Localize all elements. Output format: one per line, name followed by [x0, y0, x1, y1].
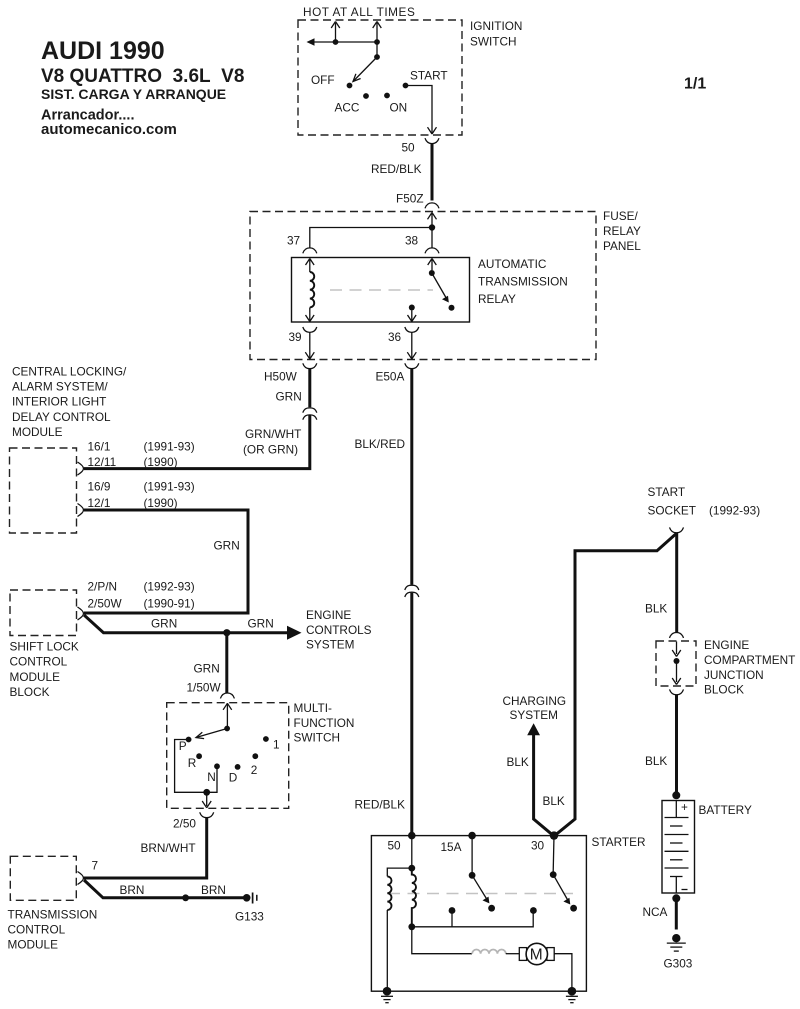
svg-text:1: 1	[273, 738, 280, 752]
svg-text:2/50: 2/50	[173, 817, 196, 831]
terminal label 37	[287, 234, 300, 248]
wire 36 to panel edge	[407, 332, 416, 359]
switch wiper arm toward P	[196, 729, 227, 739]
junction block internal dot	[674, 658, 680, 664]
bus contact stub left	[449, 907, 456, 927]
svg-text:SYSTEM: SYSTEM	[306, 638, 355, 652]
terminal label 36	[388, 330, 402, 344]
wire label BLK	[543, 794, 565, 808]
relay internal dashed link	[330, 289, 433, 291]
wire feed arrow up right	[373, 22, 382, 43]
wire RED/BLK to starter 50	[410, 593, 413, 836]
battery label	[699, 803, 752, 817]
solenoid pull-in coil branch	[387, 868, 412, 876]
wire label GRN/WHT (OR GRN)	[243, 427, 301, 457]
wire label GRN	[194, 662, 220, 676]
junction dot	[333, 39, 339, 45]
relay switch pivot dot	[429, 270, 435, 276]
inline connector on GRN wire	[303, 408, 317, 420]
relay contact dot	[449, 305, 455, 311]
page number 1/1	[684, 76, 706, 93]
svg-text:automecanico.com: automecanico.com	[41, 121, 177, 138]
svg-text:2/P/N: 2/P/N	[88, 580, 118, 594]
svg-text:IGNITION: IGNITION	[470, 19, 522, 33]
automatic transmission relay box	[292, 258, 470, 323]
wire BLK from socket to junction block	[675, 533, 678, 633]
svg-text:DELAY CONTROL: DELAY CONTROL	[12, 410, 111, 424]
transmission control module box	[10, 856, 76, 900]
svg-text:30: 30	[531, 839, 545, 853]
wire label GRN	[214, 539, 240, 553]
arrow to charging system	[527, 723, 540, 735]
svg-text:(1990-91): (1990-91)	[144, 597, 195, 611]
svg-text:RED/BLK: RED/BLK	[371, 162, 422, 176]
solenoid output junction dot	[408, 923, 415, 930]
svg-text:FUSE/: FUSE/	[603, 209, 638, 223]
wire NCA to ground	[675, 898, 678, 929]
wire label NCA	[643, 905, 668, 919]
wire label BLK	[507, 755, 529, 769]
30 switch arm	[553, 875, 570, 905]
svg-text:SWITCH: SWITCH	[470, 35, 517, 49]
30 contact dot	[570, 905, 577, 912]
starter terminal label 50	[388, 839, 402, 853]
contact dot D	[235, 764, 241, 770]
terminal label 2/50	[173, 817, 196, 831]
switch pivot dot	[224, 726, 230, 732]
engine controls system label	[306, 608, 372, 652]
contact bus wire	[412, 913, 533, 927]
svg-text:BLK: BLK	[645, 601, 667, 615]
ground G303	[667, 934, 686, 951]
switch entry arrow up	[223, 703, 232, 726]
svg-text:NCA: NCA	[643, 905, 668, 919]
multi-function switch label	[294, 701, 355, 745]
svg-text:37: 37	[287, 234, 300, 248]
svg-text:COMPARTMENT: COMPARTMENT	[704, 653, 795, 667]
svg-text:AUTOMATIC: AUTOMATIC	[478, 257, 547, 271]
svg-text:GRN: GRN	[194, 662, 220, 676]
wire 39 to panel edge	[305, 332, 314, 359]
relay pin 36 arrow down	[408, 311, 417, 322]
OFF label	[311, 73, 335, 87]
shift lock module label	[10, 640, 79, 700]
svg-text:F50Z: F50Z	[396, 192, 424, 206]
wire winding to motor	[506, 953, 520, 955]
starter terminal 50 dot	[408, 832, 416, 840]
pin connector 7	[78, 872, 84, 885]
terminal 50 connector cup	[425, 138, 439, 143]
motor M1	[519, 943, 554, 964]
node HOT AT ALL TIMES	[303, 5, 415, 19]
junction dot	[374, 39, 380, 45]
battery negative dot	[672, 894, 680, 902]
starter ground left	[381, 987, 393, 1003]
junction block entry arrow down	[672, 642, 681, 657]
H50W connector cup	[303, 363, 317, 368]
connector arch above junction block	[670, 633, 684, 638]
ground G133	[243, 893, 257, 904]
hold-in coil	[412, 868, 416, 927]
svg-text:INTERIOR LIGHT: INTERIOR LIGHT	[12, 395, 106, 409]
svg-text:(1991-93): (1991-93)	[144, 480, 195, 494]
svg-text:BLK/RED: BLK/RED	[355, 437, 405, 451]
central locking module label	[12, 364, 127, 439]
ignition switch label	[470, 19, 522, 49]
output arrow down	[202, 792, 211, 808]
svg-text:AUDI 1990: AUDI 1990	[41, 37, 165, 65]
wire from START to terminal 50	[406, 86, 437, 135]
inline connector on BLK/RED wire	[405, 585, 419, 597]
connector arch F50Z	[425, 203, 439, 208]
svg-text:GRN: GRN	[276, 390, 302, 404]
ground label G303	[664, 957, 693, 971]
junction dot GRN	[223, 629, 230, 636]
wire RED/BLK	[431, 144, 434, 201]
battery positive dot	[672, 791, 680, 799]
title block	[41, 37, 244, 138]
contact dot 1	[263, 736, 269, 742]
svg-text:JUNCTION: JUNCTION	[704, 668, 764, 682]
terminal label 50	[402, 141, 416, 155]
wire label RED/BLK	[355, 798, 406, 812]
svg-text:CONTROL: CONTROL	[8, 923, 66, 937]
svg-text:N: N	[207, 770, 216, 784]
wire label BLK/RED	[355, 437, 405, 451]
wire label BRN	[120, 883, 145, 897]
svg-text:HOT AT ALL TIMES: HOT AT ALL TIMES	[303, 5, 415, 19]
starter ground right	[566, 987, 578, 1003]
svg-text:BATTERY: BATTERY	[699, 803, 752, 817]
svg-text:BLK: BLK	[507, 755, 529, 769]
svg-text:SYSTEM: SYSTEM	[510, 708, 559, 722]
starter label	[592, 835, 646, 849]
svg-text:P: P	[179, 739, 187, 753]
15A switch wire	[471, 836, 473, 872]
svg-text:ON: ON	[390, 101, 408, 115]
starter internal dashed link	[388, 893, 573, 895]
pin label 7	[92, 859, 99, 873]
start socket connector cup	[670, 527, 684, 532]
junction block exit arrow down	[672, 661, 681, 685]
svg-text:SHIFT LOCK: SHIFT LOCK	[10, 640, 79, 654]
svg-text:MODULE: MODULE	[10, 670, 61, 684]
pin labels 16/9 12/1	[88, 480, 195, 511]
15A switch arm	[472, 875, 489, 903]
splice dot	[182, 894, 189, 901]
connector arch 1/50W	[220, 693, 234, 698]
svg-text:CONTROLS: CONTROLS	[306, 623, 372, 637]
svg-text:+: +	[681, 800, 688, 814]
svg-text:50: 50	[402, 141, 416, 155]
svg-text:(1990): (1990)	[144, 455, 178, 469]
wire label GRN	[151, 617, 177, 631]
contact label 1	[273, 738, 280, 752]
terminal 37 connector arch	[303, 248, 317, 253]
wire to terminal 38	[431, 228, 433, 249]
wire label BRN/WHT	[141, 841, 196, 855]
svg-text:ALARM SYSTEM/: ALARM SYSTEM/	[12, 380, 108, 394]
node H50W	[264, 370, 298, 384]
30 switch wire	[552, 836, 555, 872]
svg-text:STARTER: STARTER	[592, 835, 646, 849]
svg-text:BRN: BRN	[201, 883, 226, 897]
15A switch pivot dot	[469, 872, 476, 879]
pin connector 12/1	[78, 504, 84, 517]
svg-text:(1991-93): (1991-93)	[144, 440, 195, 454]
battery A1	[662, 800, 695, 893]
contact dot N	[214, 763, 220, 769]
field winding	[472, 950, 506, 954]
wire coil to ground	[386, 910, 388, 991]
svg-text:39: 39	[289, 330, 302, 344]
wire GRN down to multi-function switch	[225, 633, 228, 693]
wire GRN from 12/1 down to shift lock	[84, 510, 248, 613]
svg-text:START: START	[648, 485, 686, 499]
terminal 39 connector cup	[303, 327, 317, 332]
transmission control module label	[8, 908, 98, 952]
svg-text:50: 50	[388, 839, 402, 853]
relay label	[478, 257, 568, 306]
svg-text:BLK: BLK	[543, 794, 565, 808]
wire label BLK	[645, 601, 667, 615]
ground label G133	[235, 910, 264, 924]
wire 50 to solenoid	[411, 836, 413, 869]
node E50A	[376, 370, 405, 384]
OFF contact dot	[347, 83, 353, 89]
svg-text:15A: 15A	[441, 840, 462, 854]
relay switch arm	[432, 273, 449, 303]
svg-text:BRN/WHT: BRN/WHT	[141, 841, 196, 855]
svg-text:2: 2	[251, 763, 258, 777]
shift lock module box	[10, 590, 77, 636]
pin labels 16/1 12/11	[88, 440, 195, 469]
svg-text:SOCKET: SOCKET	[648, 504, 697, 518]
svg-text:RELAY: RELAY	[603, 224, 641, 238]
wire label RED/BLK	[371, 162, 422, 176]
switch wiper contact dot	[374, 54, 380, 60]
svg-text:RELAY: RELAY	[478, 292, 516, 306]
svg-text:MODULE: MODULE	[12, 425, 63, 439]
svg-text:1/50W: 1/50W	[187, 681, 222, 695]
svg-text:E50A: E50A	[376, 370, 405, 384]
output junction dot	[203, 789, 210, 796]
wire horizontal with left arrow	[307, 38, 378, 46]
junction block label	[704, 638, 795, 696]
wire to motor	[412, 927, 472, 954]
wire P and N to output	[175, 740, 217, 793]
wire BRN to ground	[84, 880, 244, 898]
engine compartment junction block box	[656, 641, 696, 686]
svg-text:RED/BLK: RED/BLK	[355, 798, 406, 812]
terminal 2/50 connector cup	[200, 812, 214, 817]
svg-text:(1992-93): (1992-93)	[709, 504, 760, 518]
svg-text:ENGINE: ENGINE	[704, 638, 749, 652]
svg-text:V8 QUATTRO 3.6L V8: V8 QUATTRO 3.6L V8	[41, 66, 244, 87]
15A contact dot	[488, 905, 495, 912]
terminal label 1/50W	[187, 681, 222, 695]
svg-text:ACC: ACC	[335, 101, 360, 115]
contact label N	[207, 770, 216, 784]
svg-text:GRN: GRN	[214, 539, 240, 553]
svg-text:MODULE: MODULE	[8, 938, 59, 952]
svg-text:7: 7	[92, 859, 99, 873]
starter terminal label 15A	[441, 840, 462, 854]
start socket label	[648, 485, 761, 518]
svg-text:TRANSMISSION: TRANSMISSION	[478, 275, 568, 289]
svg-text:CENTRAL LOCKING/: CENTRAL LOCKING/	[12, 364, 127, 378]
pull-in coil	[387, 876, 391, 910]
svg-text:R: R	[188, 756, 197, 770]
svg-text:38: 38	[405, 234, 419, 248]
shift lock pin labels	[88, 580, 195, 611]
contact label R	[188, 756, 197, 770]
relay coil pin 37 arrow up	[306, 259, 315, 273]
wire GRN from H50W	[308, 368, 311, 407]
wire to terminal 37	[310, 228, 432, 249]
svg-text:FUNCTION: FUNCTION	[294, 716, 355, 730]
wire E50A BLK/RED upper	[410, 368, 413, 585]
shift lock pin connector	[78, 607, 84, 620]
relay coil pin 39 arrow down	[306, 308, 315, 322]
arrow to engine controls system	[287, 626, 302, 640]
bus contact dot right	[530, 907, 537, 914]
contact label P	[179, 739, 187, 753]
svg-text:CONTROL: CONTROL	[10, 655, 68, 669]
wire BLK from socket to starter 30	[555, 534, 676, 836]
wire feed arrow up left	[331, 22, 340, 43]
junction dot	[429, 224, 435, 230]
svg-text:G133: G133	[235, 910, 264, 924]
relay coil	[310, 272, 314, 307]
wire label GRN	[276, 390, 302, 404]
central locking module box	[10, 448, 77, 533]
wire BRN/WHT down to transmission module	[84, 818, 207, 878]
svg-text:BRN: BRN	[120, 883, 145, 897]
connector cup below junction block	[670, 689, 684, 694]
starter box	[371, 836, 586, 992]
ACC contact dot	[363, 93, 369, 99]
wire	[376, 42, 378, 57]
contact dot R	[196, 753, 202, 759]
svg-text:GRN: GRN	[248, 617, 274, 631]
relay switch pin 38 arrow up	[428, 259, 437, 271]
terminal label 39	[289, 330, 302, 344]
contact dot P	[186, 737, 192, 743]
svg-text:G303: G303	[664, 957, 693, 971]
fuse/relay panel label	[603, 209, 641, 253]
ACC label	[335, 101, 360, 115]
ON contact dot	[384, 93, 390, 99]
starter terminal 30 dot	[550, 831, 558, 839]
wire BLK junction block to battery	[675, 695, 678, 796]
solenoid junction dot	[408, 865, 415, 872]
svg-text:M: M	[530, 947, 543, 964]
wire label BLK	[645, 754, 667, 768]
svg-text:PANEL: PANEL	[603, 239, 641, 253]
wire GRN to engine controls	[84, 615, 288, 633]
svg-text:BLK: BLK	[645, 754, 667, 768]
svg-text:12/11: 12/11	[88, 455, 117, 469]
contact dot 2	[252, 753, 258, 759]
starter terminal 15A dot	[468, 832, 476, 840]
pin connector 12/11	[78, 462, 84, 475]
wire label BRN	[201, 883, 226, 897]
START label	[410, 69, 448, 83]
terminal 38 connector arch	[425, 248, 439, 253]
svg-text:1/1: 1/1	[684, 76, 706, 93]
svg-text:H50W: H50W	[264, 370, 298, 384]
terminal label 38	[405, 234, 419, 248]
wire label GRN	[248, 617, 274, 631]
svg-text:MULTI-: MULTI-	[294, 701, 333, 715]
svg-text:SIST. CARGA Y ARRANQUE: SIST. CARGA Y ARRANQUE	[41, 86, 226, 102]
svg-text:(1990): (1990)	[144, 496, 178, 510]
wire motor to ground	[554, 954, 572, 992]
svg-text:OFF: OFF	[311, 73, 335, 87]
charging system label	[503, 694, 567, 722]
svg-text:CHARGING: CHARGING	[503, 694, 567, 708]
svg-text:GRN/WHT: GRN/WHT	[245, 427, 301, 441]
30 switch pivot dot	[550, 871, 557, 878]
relay pin 36 contact dot	[409, 305, 415, 311]
svg-text:GRN: GRN	[151, 617, 177, 631]
svg-text:SWITCH: SWITCH	[294, 731, 341, 745]
ignition switch box	[298, 20, 462, 135]
switch wiper arm toward OFF	[353, 57, 377, 82]
svg-text:D: D	[229, 771, 238, 785]
svg-text:(1992-93): (1992-93)	[144, 580, 195, 594]
svg-text:2/50W: 2/50W	[88, 597, 123, 611]
svg-text:16/9: 16/9	[88, 480, 111, 494]
contact label D	[229, 771, 238, 785]
svg-text:(OR GRN): (OR GRN)	[243, 443, 298, 457]
START contact dot	[403, 83, 409, 89]
terminal 36 connector cup	[405, 327, 419, 332]
ON label	[390, 101, 408, 115]
svg-text:36: 36	[388, 330, 402, 344]
multi-function switch box	[167, 703, 289, 809]
starter terminal label 30	[531, 839, 545, 853]
svg-text:BLOCK: BLOCK	[704, 682, 744, 696]
wire entry arrow up	[428, 213, 437, 228]
svg-text:ENGINE: ENGINE	[306, 608, 351, 622]
svg-text:START: START	[410, 69, 448, 83]
wire GRN/WHT down and left to module	[84, 416, 310, 469]
E50A connector cup	[405, 363, 419, 368]
svg-text:16/1: 16/1	[88, 440, 111, 454]
fuse/relay panel box	[250, 212, 596, 360]
svg-text:TRANSMISSION: TRANSMISSION	[8, 908, 98, 922]
node F50Z	[396, 192, 424, 206]
svg-text:12/1: 12/1	[88, 496, 111, 510]
svg-text:BLOCK: BLOCK	[10, 685, 50, 699]
wire BLK to charging system	[534, 734, 553, 835]
contact label 2	[251, 763, 258, 777]
